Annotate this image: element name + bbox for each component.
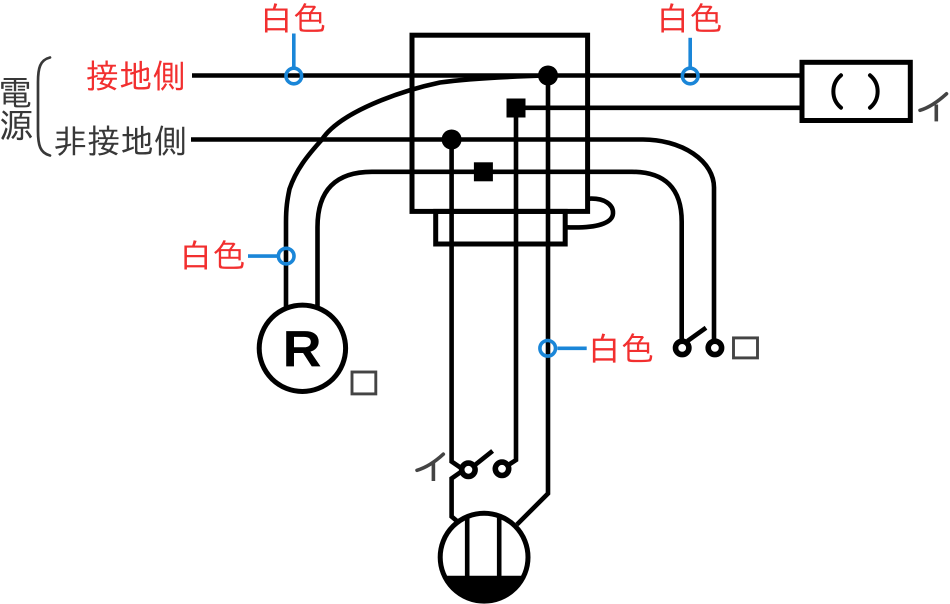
wire: white conductor from junction dot down to ceiling light <box>517 76 548 525</box>
wire: switched conductor from terminal to receptacle box ( ) <box>520 106 802 111</box>
label イ for switch <box>417 454 443 481</box>
white marker 白色 on box-to-receptacle wire <box>661 3 720 84</box>
cable loop at box <box>566 199 613 228</box>
right paren <box>870 75 878 107</box>
ceiling light <box>440 513 528 601</box>
junction dot (non-grounded wires) <box>442 130 462 150</box>
switch ロ left contact <box>676 341 689 354</box>
white marker 白色 on ceiling light wire <box>540 333 652 362</box>
lamp receptacle R <box>259 305 345 391</box>
power source bracket <box>38 58 50 156</box>
terminal square lower (lamp R line) <box>474 162 493 181</box>
switch イ right contact <box>495 462 508 475</box>
switch ロ lever <box>688 328 707 341</box>
label イ for receptacle <box>920 94 947 122</box>
wire: conductor from lamp R right terminal through terminal square to switch ロ left contact <box>318 172 682 340</box>
switch イ lever <box>475 451 492 465</box>
label ロ square for lamp R <box>352 372 376 394</box>
receptacle box ( ) <box>802 62 910 120</box>
white marker 白色 on source grounded wire <box>265 3 324 84</box>
white marker 白色 on lamp R wire <box>184 240 294 269</box>
left paren <box>833 75 841 107</box>
junction box <box>412 35 588 211</box>
wire: non-grounded conductor from source through box, curving down to switch ロ right contact <box>191 140 714 340</box>
wire: from switch イ left contact down to ceiling light <box>452 472 462 522</box>
switch ロ right contact <box>708 341 721 354</box>
wire: switched conductor from terminal square down to switch イ right contact <box>509 108 516 464</box>
wire: non-grounded feed from junction dot down to switch イ left contact <box>452 140 462 469</box>
label ロ square for switch <box>734 338 758 358</box>
switch イ left contact <box>462 463 475 476</box>
junction dot (white wires) <box>538 66 558 86</box>
grounded-side label 接地側 <box>87 60 183 90</box>
terminal square upper (switched line to ( ) ) <box>507 99 526 118</box>
non-grounded-side label 非接地側 <box>55 125 184 155</box>
wire: white conductor arc from junction dot to lamp R left terminal <box>286 76 548 313</box>
wire: grounded (white) conductor from source to receptacle box <box>192 73 802 78</box>
power source label 電源 <box>1 78 32 140</box>
junction box neck <box>436 211 566 244</box>
